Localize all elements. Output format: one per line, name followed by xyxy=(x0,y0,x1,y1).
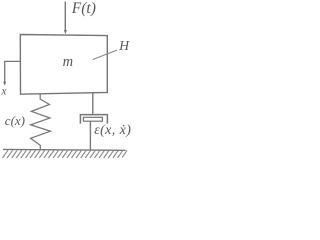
damper rod top xyxy=(92,93,94,115)
leader line to H xyxy=(93,50,117,59)
svg-text:m: m xyxy=(63,54,73,70)
svg-text:ε(x, ẋ): ε(x, ẋ) xyxy=(94,123,131,138)
x axis arrowhead xyxy=(3,82,6,86)
damper cylinder cup xyxy=(80,115,107,124)
ground hatching xyxy=(3,150,128,158)
svg-text:c(x): c(x) xyxy=(5,113,25,128)
damper piston xyxy=(83,117,102,121)
spring c(x) xyxy=(31,94,51,150)
damper rod bottom xyxy=(89,121,91,150)
mass block m xyxy=(20,35,107,95)
force arrow F(t) xyxy=(64,2,66,32)
force arrowhead xyxy=(64,30,67,34)
x axis wire xyxy=(5,61,21,82)
svg-text:F(t): F(t) xyxy=(71,0,96,17)
ground line xyxy=(3,148,126,151)
svg-text:x: x xyxy=(0,86,7,98)
svg-text:H: H xyxy=(118,38,130,53)
